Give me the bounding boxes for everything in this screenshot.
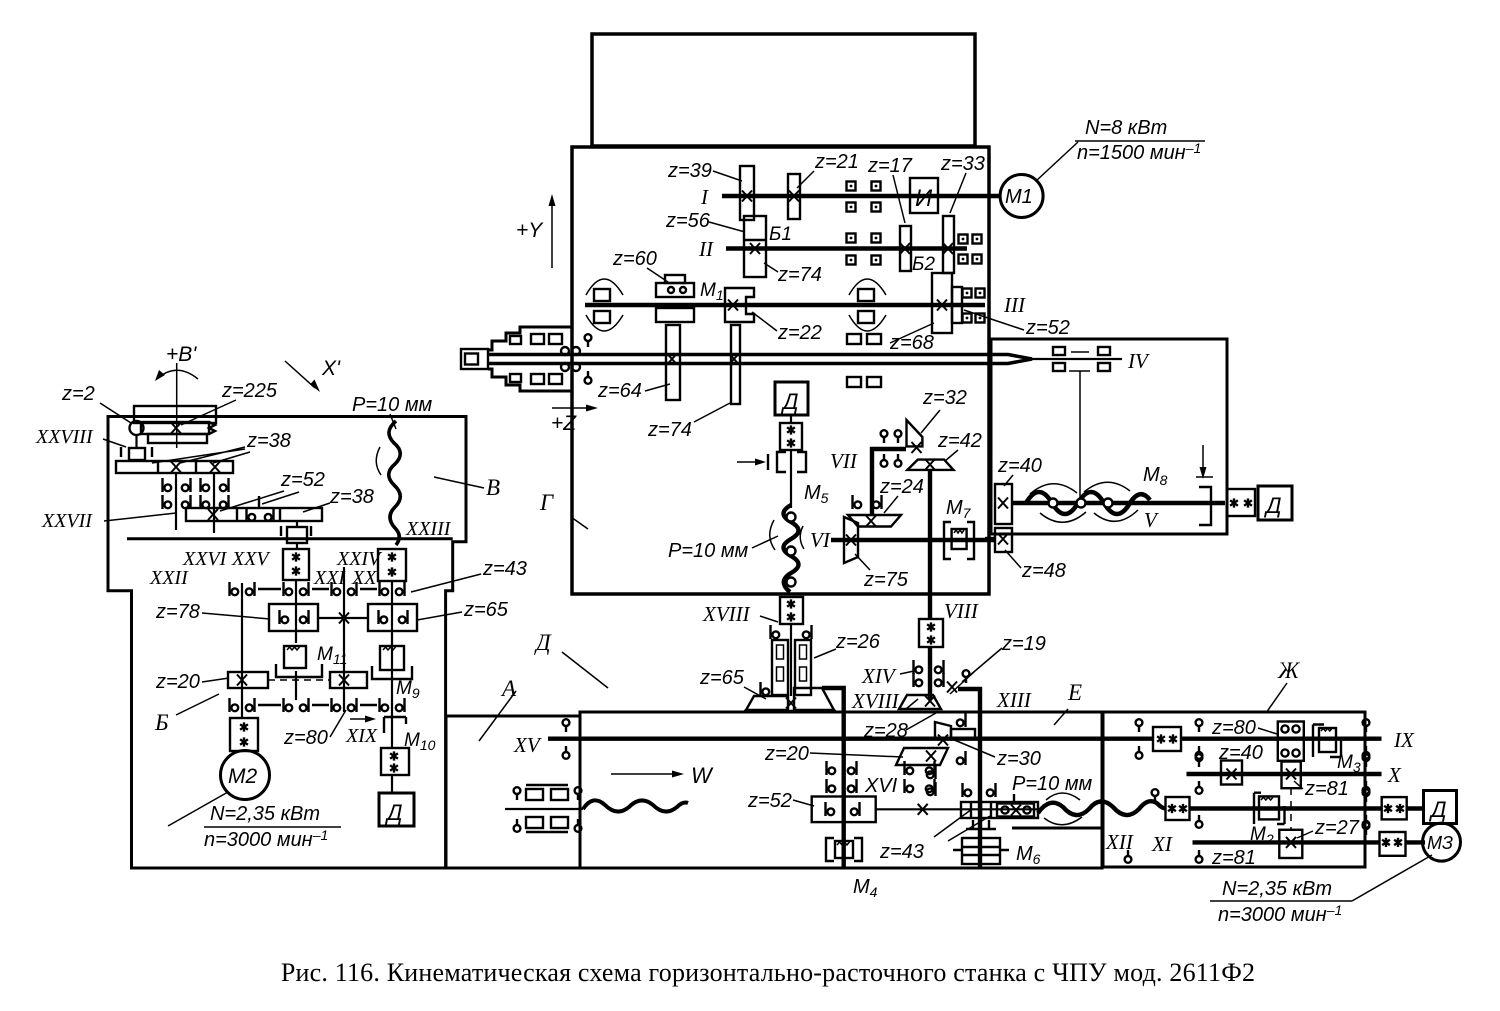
svg-text:XVI: XVI — [864, 775, 898, 797]
shaft XXI cross — [318, 617, 368, 619]
leader z=22 — [752, 312, 777, 331]
svg-text:II: II — [698, 237, 714, 261]
link to coupling — [790, 415, 792, 423]
shaft X — [1187, 772, 1382, 776]
svg-text:XXIII: XXIII — [405, 518, 452, 540]
svg-text:X': X' — [321, 357, 341, 380]
svg-text:XVIII: XVIII — [702, 602, 751, 626]
bearings right of Б2 — [963, 289, 972, 298]
shaft XI — [1165, 806, 1423, 810]
leader z=74 lower — [694, 403, 730, 422]
leaders z=52 left — [220, 491, 299, 511]
svg-text:IX: IX — [1393, 728, 1415, 752]
bearings at XV left — [563, 719, 570, 732]
bearings on XVIII — [771, 625, 780, 639]
svg-text:z=32: z=32 — [922, 387, 967, 409]
leader for В — [434, 477, 484, 488]
clutch X marks on spindle — [667, 354, 677, 365]
svg-text:VI: VI — [810, 528, 831, 552]
leader z=56 — [709, 222, 745, 232]
svg-text:z=42: z=42 — [937, 430, 982, 452]
leader z=64 — [645, 384, 670, 391]
svg-text:М1: М1 — [1005, 186, 1033, 208]
vertical shafts from row — [175, 473, 177, 530]
leader for Е — [1054, 709, 1068, 725]
bearings at bevel — [761, 682, 770, 696]
svg-text:z=52: z=52 — [280, 469, 325, 491]
coupling on VIII — [919, 619, 943, 647]
svg-text:XXVI: XXVI — [182, 548, 228, 570]
svg-text:VII: VII — [830, 449, 858, 473]
leader z=68 — [890, 323, 934, 343]
shaft XV — [548, 737, 1153, 741]
leader z=39 — [713, 171, 742, 181]
svg-text:А: А — [500, 676, 517, 701]
vertical shafts — [241, 583, 243, 718]
svg-text:V: V — [1144, 508, 1159, 532]
coupling to Д — [381, 748, 409, 775]
brake M11 — [276, 664, 322, 677]
svg-text:М7: М7 — [946, 497, 972, 521]
svg-text:z=80: z=80 — [283, 727, 328, 749]
svg-text:Д: Д — [1428, 797, 1447, 822]
ram bearing glyphs — [585, 334, 592, 347]
coupling XV-IX — [1153, 727, 1181, 751]
bed ledge left of bottom box — [446, 716, 580, 868]
inner top edge of gearbox Б — [127, 537, 453, 540]
screw V shaft — [1012, 501, 1225, 505]
svg-text:М9: М9 — [396, 678, 420, 701]
wall bearings right — [1363, 719, 1370, 732]
gear z=48 — [995, 528, 1012, 552]
clamp bracket on V — [1199, 487, 1211, 525]
bearings above VI — [853, 495, 862, 509]
svg-text:z=60: z=60 — [612, 248, 657, 270]
svg-text:z=75: z=75 — [863, 569, 909, 591]
encoder Д box middle — [775, 382, 808, 415]
gear z=40 on V — [995, 484, 1012, 524]
spindle V feed box — [991, 339, 1227, 534]
svg-text:+Y: +Y — [516, 219, 544, 242]
leader for А — [479, 691, 516, 741]
bearings on I — [847, 182, 856, 191]
svg-text:Рис. 116. Кинематическая схема: Рис. 116. Кинематическая схема горизонта… — [281, 958, 1255, 987]
svg-text:z=225: z=225 — [221, 380, 278, 402]
svg-text:W: W — [691, 763, 714, 788]
svg-text:М8: М8 — [1143, 464, 1168, 488]
shaft M5 vertical — [790, 450, 792, 508]
svg-text:М3: М3 — [1337, 752, 1361, 775]
svg-text:z=48: z=48 — [1021, 560, 1066, 582]
gear block z=80 — [1278, 722, 1304, 761]
leader z=75 — [855, 554, 870, 570]
coupling on V tail — [1227, 489, 1255, 516]
gear row z=52/z=38 — [186, 508, 322, 521]
brake M4 — [826, 838, 862, 861]
svg-text:Б2: Б2 — [912, 254, 935, 275]
leader z=24 — [884, 496, 898, 513]
bevel z=75 — [844, 517, 858, 540]
svg-text:z=33: z=33 — [940, 153, 985, 175]
coupling under screw XVIII — [780, 597, 803, 624]
leader XXVII — [104, 513, 176, 521]
bevel z=42 — [907, 460, 953, 470]
svg-text:z=52: z=52 — [1025, 317, 1070, 339]
bottom middle box (table/saddle) — [580, 712, 1102, 868]
motor M3 — [1423, 823, 1461, 861]
svg-text:XV: XV — [513, 733, 542, 757]
svg-text:Д: Д — [384, 800, 403, 825]
clutch M6 — [962, 838, 1000, 864]
shaft VII L — [872, 449, 906, 515]
spindle tail shaft — [1032, 358, 1122, 360]
leader P top — [390, 414, 396, 429]
bearings on II — [847, 234, 856, 243]
ball screw V wave — [1026, 492, 1150, 514]
leader P=10 — [752, 536, 778, 548]
label XIX + arrow — [350, 718, 370, 720]
wall bearings left — [1196, 719, 1203, 732]
bevel z=28 top on VIII — [899, 695, 941, 709]
shaft III — [585, 303, 985, 307]
column B outline — [108, 417, 466, 869]
leader z=225 — [181, 400, 236, 425]
ram stepped housing top — [488, 327, 572, 350]
leader z=2 — [100, 403, 131, 423]
gear z=27 on M3 shaft — [1279, 830, 1302, 858]
leader M1 power — [1036, 142, 1078, 181]
gear z=20 row — [228, 672, 268, 688]
encoder Д box right — [1258, 486, 1292, 520]
leader z=19 — [962, 648, 1002, 682]
svg-text:XXV: XXV — [231, 548, 271, 570]
svg-text:z=26: z=26 — [835, 631, 881, 653]
shaft II — [726, 246, 967, 250]
svg-text:Р=10 мм: Р=10 мм — [668, 540, 749, 562]
svg-text:XIV: XIV — [861, 664, 897, 688]
leader z=28 — [906, 713, 936, 730]
leader XVIII — [760, 616, 778, 622]
motor M2 — [221, 751, 270, 800]
svg-text:Ж: Ж — [1277, 658, 1300, 683]
svg-text:z=39: z=39 — [667, 160, 712, 182]
feed gearbox box (Е/Ж) — [1103, 712, 1365, 867]
leader z=21 — [797, 171, 814, 188]
M10 stop — [384, 717, 406, 733]
svg-text:III: III — [1003, 293, 1026, 317]
svg-text:Д: Д — [1263, 493, 1282, 518]
W feed screw wave — [505, 808, 583, 810]
segmented coupling on XVI — [961, 802, 1038, 818]
leaders z=38 — [152, 447, 250, 463]
shaft VI — [831, 538, 996, 542]
leader for Б — [176, 694, 219, 715]
leader M2 power — [168, 792, 228, 826]
svg-text:N=8 кВт: N=8 кВт — [1085, 117, 1167, 139]
svg-text:z=43: z=43 — [482, 558, 527, 580]
svg-text:z=64: z=64 — [597, 380, 642, 402]
leader z=52 — [964, 310, 1024, 330]
leader for Д — [562, 652, 608, 688]
leader z=40 — [1004, 475, 1013, 486]
svg-text:+Z: +Z — [551, 412, 577, 435]
encoder Д box left — [379, 793, 414, 826]
ledge between bottom box and Е box — [1012, 827, 1103, 830]
leaders z=43 — [934, 809, 990, 841]
+Z axis arrow — [552, 407, 592, 409]
W arrow — [611, 773, 677, 775]
gear block z=65/z=43 — [368, 604, 417, 631]
bearing row upper — [230, 582, 239, 596]
svg-text:Д: Д — [780, 389, 799, 414]
svg-text:М6: М6 — [1016, 843, 1041, 867]
output to M4 shaft — [822, 688, 844, 869]
svg-text:z=81: z=81 — [1211, 847, 1256, 869]
encoder Д box far right — [1424, 791, 1457, 824]
svg-text:XXI: XXI — [313, 567, 346, 589]
bevel cluster at XV/XIII: upper flag — [935, 722, 951, 739]
gear block Б1 (z=56/z=74) — [744, 216, 766, 277]
svg-text:Б: Б — [154, 710, 169, 735]
bearing glyphs rows — [163, 478, 172, 492]
spindle tail bearings — [1053, 347, 1065, 355]
brake M9 — [372, 666, 412, 679]
tool holder at spindle nose — [461, 349, 488, 369]
svg-text:z=30: z=30 — [996, 748, 1041, 770]
svg-text:z=27: z=27 — [1314, 817, 1360, 839]
svg-text:z=38: z=38 — [246, 430, 291, 452]
clutch И box on I — [910, 178, 938, 213]
bearing row lower — [230, 698, 239, 712]
leader XXVIII — [103, 439, 126, 447]
spindle bearing arcs left — [586, 279, 623, 295]
bevel z=20 target — [896, 748, 948, 765]
coupling on M3 shaft — [1380, 832, 1406, 856]
gear z=64 on spindle — [666, 325, 680, 400]
svg-text:z=21: z=21 — [814, 151, 859, 173]
svg-text:Б1: Б1 — [769, 224, 792, 245]
ram stepped housing bottom — [488, 369, 572, 391]
svg-text:М4: М4 — [853, 876, 878, 900]
leader z=33 — [950, 173, 966, 213]
svg-text:z=43: z=43 — [879, 841, 924, 863]
svg-text:МЗ: МЗ — [1427, 833, 1453, 853]
screw XII wave right — [1038, 801, 1166, 815]
output to XIII shaft — [958, 689, 980, 869]
svg-text:М2: М2 — [1250, 824, 1274, 847]
coupling on XI left — [1166, 797, 1190, 820]
leader for Г — [571, 517, 588, 529]
leader z=48 — [1005, 550, 1021, 568]
spline shaft XVIII — [790, 624, 792, 696]
sync marks below XVI — [966, 820, 996, 829]
leader z=30 — [952, 739, 995, 757]
clutch z=22 on III — [725, 288, 754, 322]
svg-text:z=40: z=40 — [997, 455, 1042, 477]
svg-text:В: В — [486, 475, 500, 500]
drive link from IV to screw V nut — [1079, 371, 1081, 500]
leader z=32 — [921, 410, 940, 433]
coupling on XI right — [1382, 797, 1407, 819]
svg-text:Р=10 мм: Р=10 мм — [352, 394, 433, 416]
svg-text:XXII: XXII — [149, 567, 189, 589]
svg-text:Р=10 мм: Р=10 мм — [1012, 773, 1093, 795]
svg-text:I: I — [700, 185, 709, 209]
ram bearing pads — [531, 334, 544, 344]
svg-text:z=52: z=52 — [747, 790, 792, 812]
svg-text:N=2,35 кВт: N=2,35 кВт — [210, 803, 320, 825]
leader z=74 — [764, 263, 778, 272]
rack pads above spindle — [847, 334, 861, 344]
leader for Ж — [1266, 683, 1287, 713]
svg-text:+В': +В' — [166, 343, 197, 366]
coupling under Д — [780, 423, 802, 450]
svg-text:z=2: z=2 — [61, 383, 95, 405]
gear z=33 on II — [943, 216, 954, 273]
gear z=19 — [963, 670, 970, 683]
screw XXIII wave — [389, 421, 401, 545]
svg-text:Д: Д — [534, 630, 552, 655]
svg-text:z=78: z=78 — [155, 601, 200, 623]
gear z=81 on X — [1282, 762, 1301, 789]
clutch М3 on IX — [1313, 725, 1341, 758]
clutch X on XVI — [918, 804, 928, 815]
bearings around XVI — [827, 761, 836, 775]
svg-text:X: X — [1387, 763, 1402, 787]
shaft M3 bottom — [1193, 840, 1426, 844]
gear row z=38 — [116, 461, 233, 473]
svg-text:N=2,35 кВт: N=2,35 кВт — [1222, 878, 1332, 900]
support under row — [296, 521, 298, 527]
svg-text:XIX: XIX — [345, 725, 378, 747]
svg-text:М1: М1 — [700, 280, 724, 303]
machine headstock top box — [592, 34, 975, 146]
headstock gearbox box (Г) — [572, 147, 989, 594]
svg-text:М11: М11 — [317, 644, 347, 667]
svg-text:XXVIII: XXVIII — [35, 426, 94, 448]
leader M3 power — [1352, 855, 1432, 901]
shaft VIII vertical — [928, 470, 932, 700]
svg-text:z=74: z=74 — [777, 264, 822, 286]
clutch М2 on XI — [1254, 793, 1285, 824]
ball nut circles on V — [1049, 499, 1058, 508]
svg-text:М5: М5 — [804, 482, 829, 506]
clutch M7 — [944, 522, 951, 559]
shaft IX — [1181, 737, 1382, 741]
leader z=20 — [810, 753, 903, 757]
coupling to M2 — [230, 718, 258, 751]
svg-text:z=68: z=68 — [889, 332, 934, 354]
svg-text:VIII: VIII — [944, 599, 979, 623]
gear z=39 on I — [740, 166, 754, 220]
gear z=40 on X — [1221, 761, 1242, 785]
svg-text:n=3000 мин–1: n=3000 мин–1 — [1218, 902, 1342, 926]
VI stub into z=48 — [985, 537, 996, 541]
leader z=60 — [647, 268, 668, 282]
svg-text:XII: XII — [1105, 830, 1134, 854]
screw XVIII wave vertical — [784, 505, 799, 592]
gear block z=78 — [269, 604, 318, 631]
dashed link — [1290, 788, 1292, 830]
bevel pair at XVIII bottom — [746, 696, 788, 710]
shaft I — [722, 194, 1000, 198]
bearing cluster at W screw left — [514, 787, 521, 800]
svg-text:М2: М2 — [228, 765, 257, 788]
lower flag — [957, 751, 966, 765]
leader z=26 — [814, 649, 836, 658]
svg-text:XIII: XIII — [996, 688, 1032, 712]
leader z=42 — [945, 450, 958, 461]
svg-text:XX: XX — [351, 567, 377, 589]
bearings on VIII bottom — [914, 660, 923, 674]
svg-text:Е: Е — [1067, 680, 1082, 705]
gear z=21 on I — [788, 174, 800, 219]
svg-text:XVIII: XVIII — [851, 689, 900, 713]
svg-text:XXVII: XXVII — [41, 510, 93, 532]
svg-text:Г: Г — [539, 490, 554, 515]
gear block z=52 on XVI — [812, 797, 876, 823]
bearings right of z=33 on II — [959, 235, 968, 244]
svg-text:z=20: z=20 — [764, 743, 809, 765]
svg-text:z=24: z=24 — [879, 476, 924, 498]
rotary table B' stack — [134, 406, 216, 423]
svg-text:z=20: z=20 — [155, 671, 200, 693]
leader z=65 — [744, 687, 766, 699]
X' axis arrow — [285, 361, 315, 388]
svg-text:z=81: z=81 — [1304, 778, 1349, 800]
svg-text:z=80: z=80 — [1211, 717, 1256, 739]
svg-text:z=65: z=65 — [463, 599, 509, 621]
leader z=17 — [893, 175, 905, 223]
bevel z=24 — [848, 515, 901, 527]
couplings row — [283, 549, 309, 580]
boring spindle IV body — [488, 355, 1032, 364]
svg-text:XI: XI — [1151, 832, 1173, 856]
svg-text:z=65: z=65 — [699, 667, 745, 689]
svg-text:z=56: z=56 — [665, 210, 711, 232]
gear z=74 on spindle — [731, 325, 740, 404]
leader z=38 right — [303, 503, 330, 512]
rack pads below spindle — [847, 377, 861, 387]
svg-text:И: И — [915, 185, 933, 212]
motor M1 — [1000, 175, 1043, 218]
svg-text:n=3000 мин–1: n=3000 мин–1 — [204, 827, 328, 851]
svg-text:z=17: z=17 — [867, 155, 913, 177]
shaft XVI — [876, 808, 1038, 810]
svg-text:z=19: z=19 — [1001, 633, 1046, 655]
svg-text:z=22: z=22 — [777, 322, 822, 344]
spindle bearing arcs right — [849, 279, 886, 295]
bevel z=32 — [907, 420, 923, 446]
+Y axis arrow — [551, 200, 553, 268]
svg-text:IV: IV — [1127, 349, 1150, 373]
gear z=17 on II — [900, 226, 911, 271]
half-nut clamp symbol — [737, 461, 760, 463]
svg-text:n=1500 мин–1: n=1500 мин–1 — [1077, 140, 1201, 164]
bearing col below — [927, 765, 936, 779]
svg-text:z=74: z=74 — [647, 419, 692, 441]
leader z=52 lower — [793, 800, 814, 806]
gear block Б2 — [932, 273, 952, 333]
worm z=2 — [130, 421, 144, 435]
gear z=60 cluster on III — [656, 283, 694, 297]
svg-text:z=38: z=38 — [329, 486, 374, 508]
down arrow — [1202, 445, 1204, 472]
bearings on VII — [881, 430, 888, 443]
